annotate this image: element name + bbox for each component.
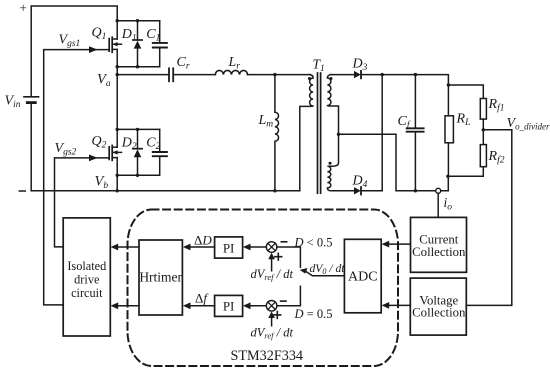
inductor Lr (215, 70, 247, 74)
svg-text:D4: D4 (352, 174, 368, 191)
svg-text:PI: PI (223, 299, 235, 314)
svg-text:Rf1: Rf1 (488, 97, 505, 114)
capacitor Cr (168, 68, 170, 81)
box PI lower (215, 295, 243, 316)
wire divider tap to voltage collection (466, 130, 512, 306)
wire circle2 to PI2 (246, 305, 266, 307)
svg-text:Lm: Lm (258, 113, 274, 130)
wire Hrtimer to isolated drive row1 (114, 246, 140, 248)
svg-text:dVref / dt: dVref / dt (251, 325, 294, 340)
svg-text:ADC: ADC (348, 269, 378, 284)
node output positive branch (447, 83, 450, 86)
svg-text:Collection: Collection (412, 245, 466, 259)
svg-text:+: + (20, 0, 27, 15)
svg-text:Rf2: Rf2 (488, 149, 505, 166)
inductor Lm magnetizing (275, 75, 279, 191)
wire V_gs1 gate drive to Q1 and down to isolated drive circuit (44, 50, 110, 305)
label dVref/dt upper (251, 267, 294, 282)
svg-text:Vin: Vin (5, 94, 21, 111)
wire D1 C1 snubber bottom bar (117, 66, 160, 68)
resistor Rf2 (480, 145, 486, 167)
node Vo_divider tap (482, 116, 550, 132)
svg-text:T1: T1 (313, 57, 325, 75)
svg-text:Cr: Cr (177, 55, 190, 72)
node Vb (95, 174, 119, 193)
transformer T1 secondary top winding (327, 75, 338, 135)
svg-text:Q1: Q1 (92, 26, 107, 43)
svg-text:Δf: Δf (195, 291, 209, 306)
battery V_in (24, 96, 39, 98)
label D less than 0.5 (294, 235, 333, 249)
svg-text:Va: Va (97, 72, 111, 90)
wire dVref input to circle1 (271, 257, 273, 271)
svg-text:D = 0.5: D = 0.5 (294, 307, 333, 321)
transistor Q2 MOSFET (108, 147, 110, 160)
wire D2 C2 snubber bottom bar (117, 174, 160, 176)
node plus sign circle1 (275, 253, 282, 260)
wire D1 C1 snubber top bar (117, 20, 160, 22)
wire top rail from battery + to Q1 drain (31, 6, 117, 96)
node plus sign circle2 (274, 312, 281, 319)
node center tap junction (337, 133, 340, 136)
wire ADC output dV0/dt with arrow (306, 271, 345, 275)
wire Lr to transformer primary (248, 74, 310, 76)
box STM32F334 dashed boundary (128, 210, 399, 367)
node junction dots Q1 block (116, 19, 140, 68)
resistor Rf1 (480, 99, 486, 120)
node plus terminal label (20, 0, 27, 15)
wire Q2 source down to Vb rail (116, 158, 118, 191)
transformer T1 secondary bottom winding (327, 134, 354, 191)
wire feedback node to circle2 (277, 286, 301, 306)
transistor Q1 MOSFET (108, 39, 110, 52)
summing junction circle2 (266, 301, 277, 312)
wire V_gs2 gate drive to Q2 and down to isolated drive circuit (55, 158, 110, 247)
node secondary top polarity dot (330, 77, 333, 80)
wire voltage collection to ADC (385, 304, 410, 306)
wire D3 cathode to output node (361, 75, 448, 85)
svg-text:PI: PI (223, 240, 235, 255)
label dVref/dt lower (251, 325, 294, 340)
wire rectifier vertical D3 to D4 (381, 75, 383, 191)
node minus sign circle1 (281, 241, 286, 243)
summing junction circle1 (266, 242, 277, 253)
wire Cr to Lr (173, 74, 215, 76)
node RL Rf2 bottom junction (446, 175, 449, 178)
box PI upper (215, 237, 243, 258)
node minus sign circle2 (281, 300, 286, 302)
wire Hrtimer to isolated drive row2 (114, 305, 140, 307)
box Hrtimer (139, 240, 182, 315)
diode D4 (354, 187, 361, 194)
transformer T1 core (317, 73, 319, 193)
diode D3 (354, 71, 361, 78)
svg-text:D1: D1 (121, 27, 137, 44)
svg-text:D3: D3 (352, 57, 368, 74)
svg-text:Q2: Q2 (92, 134, 107, 151)
wire Q1 source down through Va to Q2 drain (116, 49, 118, 147)
node Va (97, 72, 119, 90)
capacitor C1 (159, 21, 161, 42)
svg-text:Vgs1: Vgs1 (59, 33, 81, 50)
diode D1 (137, 21, 139, 40)
svg-text:D2: D2 (121, 136, 137, 153)
wire battery negative down to bottom rail (30, 103, 32, 191)
wire io circle down to current collection (437, 193, 439, 217)
label D equals 0.5 (294, 307, 333, 321)
wire secondary top to D3 (331, 74, 355, 76)
svg-text:circuit: circuit (71, 286, 103, 300)
wire PI1 to Hrtimer with delta D (186, 246, 215, 248)
svg-text:C1: C1 (146, 27, 160, 44)
wire return rail to io sense point (441, 176, 449, 191)
svg-text:dV0 / dt: dV0 / dt (310, 262, 346, 276)
svg-text:Cf: Cf (398, 114, 411, 131)
box voltage collection (410, 278, 466, 335)
wire feedback node to circle1 (277, 247, 301, 267)
svg-text:Isolated: Isolated (67, 259, 106, 273)
box ADC (344, 239, 381, 312)
box isolated drive circuit (63, 218, 110, 336)
wire current collection to ADC (385, 243, 410, 245)
transformer T1 primary winding (300, 75, 313, 191)
wire output node to Rf1 (448, 85, 483, 99)
capacitor Cf (414, 75, 416, 129)
svg-text:Vgs2: Vgs2 (55, 141, 77, 158)
svg-text:STM32F334: STM32F334 (231, 348, 304, 364)
node minus terminal label (19, 190, 25, 192)
svg-text:Collection: Collection (412, 305, 466, 319)
svg-text:Vb: Vb (95, 174, 109, 192)
svg-text:Lr: Lr (228, 55, 241, 72)
wire PI2 to Hrtimer with delta f (186, 305, 215, 307)
svg-text:ΔD: ΔD (194, 232, 212, 247)
node secondary bottom polarity dot (329, 162, 332, 165)
node primary polarity dot (308, 77, 311, 80)
wire center tap to output return (339, 134, 436, 191)
box current collection (411, 217, 467, 272)
svg-text:C2: C2 (146, 136, 160, 153)
wire D4 cathode to rectifier output vertical (361, 190, 382, 192)
svg-text:Hrtimer: Hrtimer (139, 270, 182, 285)
svg-text:Vo_divider: Vo_divider (507, 116, 550, 132)
wire bottom rail (battery - to transformer primary return) (31, 190, 300, 192)
node junction dots Q2 block (116, 128, 140, 177)
node io measurement circle (436, 188, 441, 193)
svg-text:io: io (444, 195, 453, 213)
resistor RL (447, 85, 449, 116)
wire circle1 to PI1 (246, 246, 266, 248)
svg-text:RL: RL (456, 112, 471, 129)
wire dVref input to circle2 (271, 315, 273, 326)
node Lm top junction (273, 73, 276, 76)
wire D2 C2 snubber top bar (117, 128, 160, 130)
capacitor C2 (159, 129, 161, 151)
svg-text:drive: drive (74, 272, 100, 286)
wire Va to resonant capacitor (117, 74, 169, 76)
diode D2 (137, 129, 139, 148)
